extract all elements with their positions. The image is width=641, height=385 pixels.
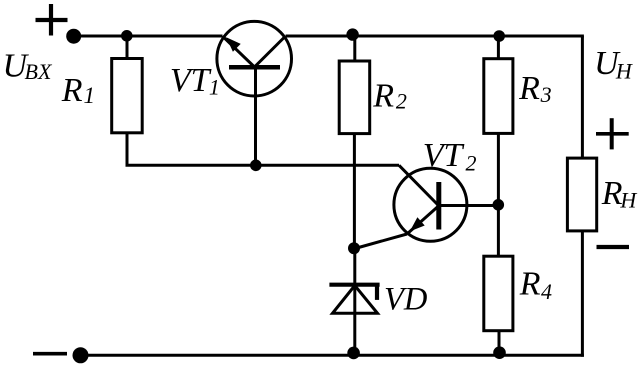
svg-text:R: R	[519, 266, 541, 303]
svg-text:3: 3	[540, 82, 552, 107]
svg-text:VT: VT	[423, 137, 465, 174]
svg-text:R: R	[518, 70, 540, 107]
svg-text:R: R	[61, 72, 83, 109]
svg-text:R: R	[601, 175, 623, 212]
svg-text:H: H	[615, 59, 633, 84]
svg-text:VT: VT	[170, 62, 212, 99]
svg-text:BX: BX	[25, 59, 53, 84]
svg-text:2: 2	[466, 150, 477, 175]
svg-text:H: H	[619, 187, 637, 212]
svg-text:VD: VD	[384, 281, 427, 317]
svg-text:R: R	[372, 77, 394, 114]
svg-text:1: 1	[84, 83, 96, 108]
svg-text:4: 4	[541, 279, 552, 304]
svg-text:1: 1	[209, 75, 220, 100]
svg-text:2: 2	[396, 89, 407, 114]
